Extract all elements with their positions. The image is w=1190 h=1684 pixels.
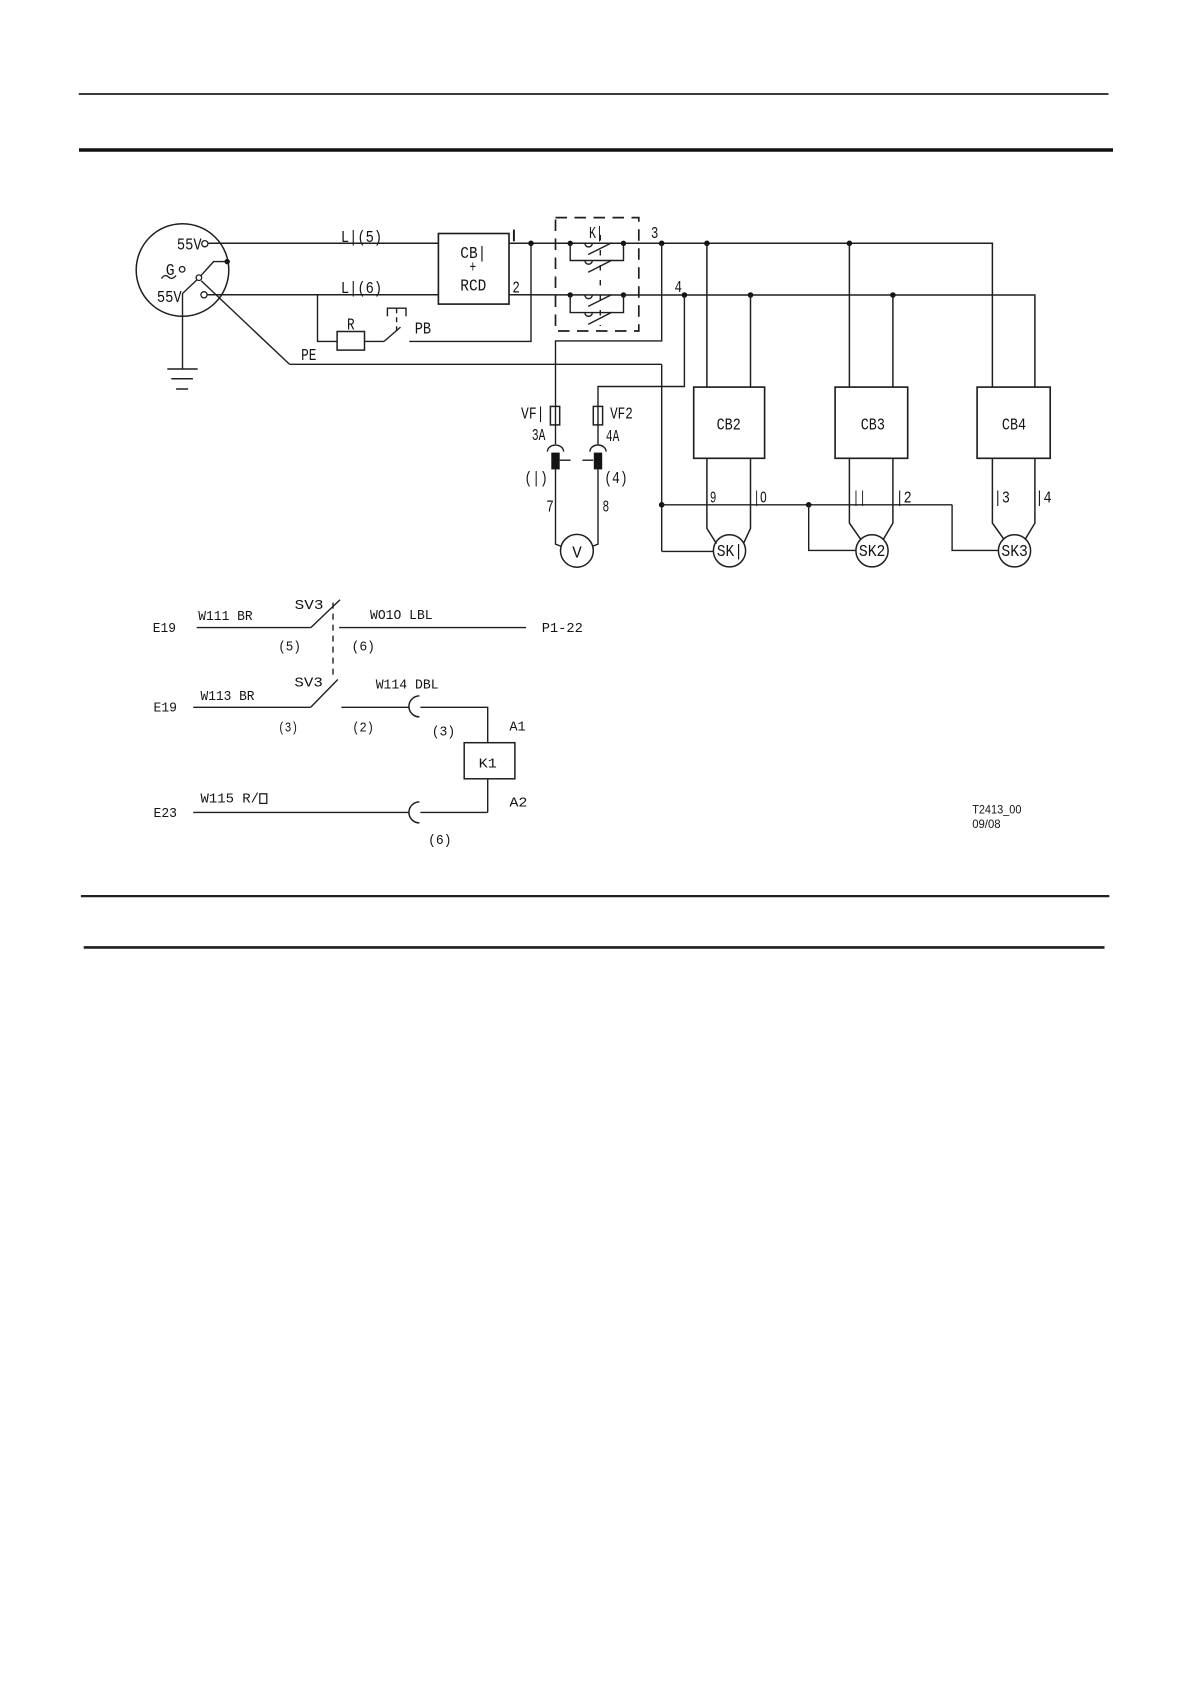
relay contact block K1 dashed box [556, 218, 639, 331]
K1 contact top pair [568, 241, 627, 273]
svg-text:E19: E19 [154, 701, 178, 717]
resistor R box [337, 332, 364, 351]
svg-text:3: 3 [651, 225, 659, 244]
junction dot node 4 [682, 292, 688, 298]
connector arc row3 [409, 802, 420, 823]
wire R to PB [365, 340, 385, 342]
svg-text:|2: |2 [896, 489, 912, 508]
generator lever wire [201, 262, 227, 276]
svg-text:E19: E19 [153, 621, 176, 637]
svg-text:(3): (3) [278, 721, 298, 737]
svg-text:55V: 55V [177, 236, 202, 255]
connector tick (1) [560, 459, 571, 461]
svg-text:3A: 3A [532, 427, 546, 446]
svg-text:(4): (4) [604, 470, 628, 489]
svg-text:RCD: RCD [460, 278, 486, 297]
rule bottom 1 [81, 895, 1109, 897]
wire CB4 out 13 [992, 458, 1004, 539]
junction dot CB3 feed line3 [847, 241, 853, 247]
wire node3 to VF1 [556, 243, 662, 444]
switch SV3 pole1 blade [311, 600, 340, 628]
svg-text:SV3: SV3 [295, 598, 324, 614]
pushbutton PB blade [384, 327, 400, 341]
svg-text:(5): (5) [278, 640, 301, 656]
connector pin bar (1) [551, 453, 559, 470]
svg-text:WO1O LBL: WO1O LBL [370, 608, 433, 624]
wire K1 coil A2 down [487, 779, 489, 813]
svg-text:P1-22: P1-22 [542, 621, 583, 637]
breaker CB4 box [977, 387, 1050, 458]
svg-text:|3: |3 [994, 489, 1010, 508]
wire connector to V left [556, 469, 562, 546]
wire pivot to ground [183, 280, 198, 369]
generator terminal bottom circle [201, 292, 207, 298]
svg-text:L|(5): L|(5) [341, 229, 382, 248]
svg-text:9: 9 [710, 489, 717, 508]
K1 contact bottom pair [568, 292, 627, 324]
wire line4 to CB2 [750, 295, 752, 387]
svg-text:8: 8 [603, 498, 610, 517]
wire branch L1(6) down to R [318, 295, 338, 342]
junction dot PE bus SK1 [659, 502, 665, 508]
pushbutton PB actuator cap [387, 308, 406, 316]
wire PE stub to SK2 [809, 505, 856, 551]
socket SK3 circle [998, 535, 1030, 567]
svg-text:VF2: VF2 [610, 406, 633, 425]
svg-text:W114 DBL: W114 DBL [376, 678, 439, 694]
wire CB1 pin2 to K1 [509, 294, 624, 296]
svg-text:09/08: 09/08 [972, 817, 1001, 831]
svg-text:W113 BR: W113 BR [201, 689, 256, 705]
wire line 4 [624, 295, 1035, 387]
wire CB3 out 12 [883, 458, 893, 539]
pin 1 label CB1 [513, 230, 515, 242]
svg-text:R: R [347, 316, 355, 335]
fuse VF2 box [593, 406, 602, 425]
rule bottom 2 [84, 946, 1105, 949]
connector socket arc (4) [590, 445, 606, 452]
junction dot on generator lever [225, 259, 230, 264]
wire line4 to CB3 [892, 295, 894, 387]
wire L1(6) generator to CB1 [207, 294, 438, 296]
svg-text:W115 R/: W115 R/ [201, 792, 260, 808]
junction dot CB2 feed line4 [748, 292, 754, 298]
svg-text:PE: PE [301, 347, 316, 366]
breaker CB2 box [694, 387, 765, 458]
wire connector to V right [592, 469, 598, 546]
svg-text:(3): (3) [432, 725, 456, 741]
svg-text:|4: |4 [1035, 489, 1051, 508]
wire CB2 out 10 [744, 458, 751, 543]
svg-text:55V: 55V [157, 289, 182, 308]
fuse VF1 box [550, 406, 559, 425]
connector socket arc (1) [547, 445, 563, 452]
wire W115 [193, 811, 409, 813]
wire PE vertical drop [661, 364, 663, 551]
svg-text:W111 BR: W111 BR [198, 609, 253, 625]
junction dot node 3 [659, 241, 665, 247]
wire W113 BR [193, 706, 311, 708]
socket SK2 circle [856, 535, 888, 567]
breaker CB1 label [460, 245, 486, 297]
svg-text:SV3: SV3 [294, 676, 323, 692]
breaker CB1+RCD box [438, 234, 509, 305]
wire CB1 pin1 to K1 [509, 242, 624, 244]
wire PE stub to SK3 [952, 505, 999, 551]
svg-text:SK3: SK3 [1001, 543, 1028, 562]
svg-text:A1: A1 [509, 720, 525, 736]
ground [167, 369, 197, 389]
svg-text:CB4: CB4 [1002, 416, 1026, 435]
wire PE horizontal [290, 363, 662, 365]
generator rotor circle [179, 267, 185, 273]
svg-text:(6): (6) [352, 640, 376, 656]
voltmeter V circle [561, 534, 594, 567]
wire line3 to CB2 [706, 243, 708, 387]
svg-text:CB2: CB2 [717, 416, 741, 435]
wire PE diagonal [201, 281, 289, 365]
wire L1(5) generator to CB1 [208, 242, 439, 244]
generator G body [136, 224, 229, 317]
svg-text:||: || [853, 489, 866, 508]
generator tilde mark [162, 276, 177, 279]
junction dot CB3 feed line4 [890, 292, 896, 298]
svg-text:A2: A2 [509, 795, 527, 811]
generator terminal top circle [202, 241, 208, 247]
connector arc row2 [409, 696, 420, 717]
switch SV3 link dashed [332, 603, 334, 679]
pushbutton PB actuator rod dashed [396, 308, 398, 331]
svg-text:VF|: VF| [521, 406, 545, 425]
switch SV3 pole2 blade [311, 680, 338, 708]
svg-text:T2413_00: T2413_00 [972, 803, 1021, 817]
wire line3 to CB3 [848, 243, 850, 387]
wire PE stub to SK1 [662, 550, 714, 552]
svg-text:CB3: CB3 [861, 416, 885, 435]
connector tick (4) [582, 459, 593, 461]
generator pivot circle [196, 275, 202, 281]
svg-text:+: + [470, 259, 477, 278]
junction dot PE bus SK2 [806, 502, 812, 508]
wire SV3 to connector [341, 706, 409, 708]
svg-text:L|(6): L|(6) [341, 280, 382, 299]
svg-text:SK|: SK| [717, 543, 743, 562]
svg-text:4A: 4A [606, 428, 620, 447]
svg-text:(|): (|) [524, 470, 548, 489]
relay coil K1 box [464, 743, 515, 779]
socket SK1 circle [713, 535, 745, 567]
svg-text:|O: |O [753, 489, 767, 508]
svg-text:V: V [572, 545, 582, 564]
wire CB2 out 9 [707, 458, 717, 543]
junction dot PB branch on L1(5) [528, 241, 534, 247]
K1 mechanical link dashed [599, 235, 601, 326]
rule top thin [79, 93, 1109, 95]
connector pin bar (4) [594, 453, 602, 470]
rule top thick [79, 148, 1113, 152]
svg-text:K|: K| [589, 225, 603, 244]
wire W115 label box glyph [260, 794, 267, 804]
svg-text:SK2: SK2 [859, 543, 886, 562]
breaker CB3 box [835, 387, 908, 458]
wire connector to K1 coil A1 [420, 707, 487, 742]
svg-text:PB: PB [415, 321, 431, 340]
svg-text:7: 7 [546, 498, 554, 517]
wire connector to K1 coil A2 [420, 811, 487, 813]
wire PE bus horizontal [662, 504, 952, 506]
wire W111 BR [197, 627, 311, 629]
wire PB to L1(5) [409, 243, 531, 341]
junction dot CB2 feed line3 [704, 241, 710, 247]
wire node4 to VF2 [598, 295, 684, 444]
wire CB3 out 11 [849, 458, 861, 539]
wire CB4 out 14 [1025, 458, 1035, 539]
wire line 3 [624, 243, 993, 387]
svg-text:K1: K1 [479, 756, 497, 772]
svg-text:E23: E23 [154, 806, 178, 822]
wire W010 LBL [339, 627, 526, 629]
svg-text:(6): (6) [428, 833, 452, 849]
svg-text:(2): (2) [352, 721, 374, 737]
